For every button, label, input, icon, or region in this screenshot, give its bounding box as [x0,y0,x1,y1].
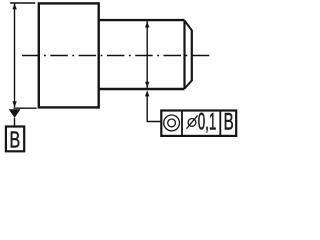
diameter symbol slash [187,115,198,128]
concentricity symbol inner circle [168,119,176,127]
datum leader line [14,118,16,126]
arrowhead top (up) [12,3,16,9]
diameter symbol circle [188,119,196,127]
centerline [22,55,211,57]
feature control frame [161,111,236,136]
small cylinder top edge [98,19,185,21]
chamfer bottom diagonal [185,81,192,89]
svg-text:0,1: 0,1 [198,109,217,135]
diameter arrowhead bottom (down) [145,82,149,88]
frame divider 2 [219,111,221,136]
large cylinder outline [39,3,99,107]
dimension line left [14,3,16,107]
diameter dimension line [146,21,148,88]
small cylinder bottom edge [98,88,185,90]
chamfer edge line [183,20,185,89]
chamfer top diagonal [185,21,192,31]
datum box [6,127,24,152]
datum triangle [9,109,21,118]
leader line to frame [147,96,160,122]
svg-text:B: B [10,127,21,153]
concentricity symbol outer circle [164,115,180,131]
extension line bottom [14,107,37,109]
extension line top [10,2,35,4]
arrowhead bottom (down) [12,101,16,107]
svg-text:B: B [224,108,234,135]
leader arrowhead (up, below edge) [145,90,149,96]
frame divider 1 [181,111,183,136]
end face [191,30,193,81]
diameter arrowhead top (up) [145,21,149,27]
